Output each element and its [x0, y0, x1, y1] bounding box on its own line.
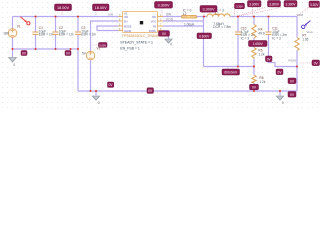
capacitor C2	[53, 32, 59, 34]
designator L1	[215, 12, 219, 16]
bias leader dashed lines	[62, 7, 312, 69]
part value TPS62822DLC_TRANS	[122, 34, 160, 38]
ground 0 center	[92, 96, 100, 105]
wire ground stub left	[12, 49, 14, 57]
label R7 1.65	[302, 34, 308, 42]
pin EN	[119, 20, 128, 23]
net label pgnd	[288, 58, 296, 62]
value 7.68uH DCR	[213, 22, 231, 29]
bias box 0V right edge	[312, 60, 320, 66]
svg-text:18.00V: 18.00V	[95, 6, 108, 10]
svg-text:VOS: VOS	[151, 20, 157, 23]
designator V2	[97, 46, 101, 50]
wire ground drop to bus	[77, 49, 79, 91]
bias box 3.300V sw	[155, 2, 173, 9]
pin VOS	[151, 20, 163, 23]
svg-text:MODE: MODE	[124, 25, 132, 28]
svg-text:0.600V: 0.600V	[199, 34, 210, 38]
wire output cap branch	[269, 17, 298, 67]
label C1 10uF ESR=1m	[39, 26, 54, 37]
svg-text:3.300V: 3.300V	[269, 2, 280, 6]
svg-text:ESR = 1m: ESR = 1m	[59, 33, 74, 37]
bias box 0V g1	[21, 51, 27, 56]
probe text	[306, 30, 312, 34]
bias box 0.600V fb	[197, 33, 212, 39]
svg-text:0: 0	[282, 101, 284, 105]
svg-text:vout: vout	[297, 13, 303, 17]
label C10	[241, 26, 256, 40]
label R6 1.2k	[259, 76, 265, 84]
ground 0 left	[9, 58, 17, 67]
bias box 0V loadgnd	[288, 78, 296, 84]
bias box 18.00V vin pin	[93, 4, 110, 11]
resistor R7 load	[295, 38, 299, 51]
bias box 0V g2	[65, 51, 71, 56]
svg-text:L2: L2	[183, 12, 187, 16]
label C3 10uF ESR=1m	[81, 26, 96, 37]
capacitor C1	[33, 32, 39, 34]
wire VOS pin to FB vertical	[163, 20, 204, 22]
svg-text:L1: L1	[215, 12, 219, 16]
pin numbers left	[119, 14, 121, 31]
value label 18V	[3, 32, 10, 36]
voltage source V1	[8, 29, 17, 38]
pin AGND	[119, 30, 132, 33]
wire VIN top rail	[13, 16, 119, 18]
svg-text:1.65: 1.65	[302, 38, 308, 42]
bias box 3.300V out1	[248, 1, 262, 7]
bias box 0V coutnode2	[276, 69, 283, 75]
designator V1	[17, 24, 21, 28]
value label 5V	[82, 52, 87, 56]
bias box 0V agnd	[159, 31, 170, 36]
svg-text:PGND: PGND	[149, 30, 156, 33]
svg-text:Vout: Vout	[306, 30, 312, 34]
svg-text:1.650V: 1.650V	[253, 42, 264, 46]
designator L2	[183, 12, 187, 16]
net label SW	[166, 13, 172, 17]
svg-text:3.300V: 3.300V	[249, 2, 260, 6]
inductor L2 small	[181, 15, 196, 18]
resistor R4	[252, 25, 256, 39]
svg-text:1.00µH: 1.00µH	[184, 22, 195, 26]
bias box 3.300V sw2	[200, 6, 217, 13]
svg-text:18V: 18V	[3, 32, 10, 36]
wire C3 branch	[77, 17, 79, 50]
resistor R6	[252, 75, 256, 83]
svg-text:STEADY_STATE = 1: STEADY_STATE = 1	[120, 41, 153, 45]
pin SW	[152, 16, 163, 19]
svg-text:VIN: VIN	[124, 16, 128, 19]
svg-text:3.300V: 3.300V	[285, 2, 296, 6]
svg-text:0: 0	[13, 63, 15, 67]
svg-text:5.00V: 5.00V	[99, 43, 106, 47]
svg-text:1.2k: 1.2k	[259, 80, 265, 84]
wire ground stub center	[95, 91, 97, 96]
wire C2 branch	[55, 17, 57, 50]
wire divider column leads	[253, 17, 255, 92]
bias box 3.300V out2	[268, 1, 281, 7]
bias box 0V busend	[288, 92, 296, 98]
wire SW output line	[163, 16, 297, 18]
bias box 1.650V tap	[249, 41, 268, 47]
wire FB pin to FB vertical	[163, 25, 204, 27]
svg-text:VOS: VOS	[166, 17, 174, 21]
wire C10 feedforward branch	[237, 17, 239, 67]
net label VIN	[108, 13, 113, 17]
resistor R5	[252, 48, 256, 60]
net label VOS	[166, 17, 174, 21]
bias box 3.300V out4	[309, 1, 320, 7]
svg-text:3.30V: 3.30V	[236, 5, 243, 9]
capacitor C10 feedforward	[235, 32, 241, 34]
bias box 3.300V out3	[284, 1, 297, 7]
svg-text:SW: SW	[152, 16, 157, 19]
wire AGND pin	[97, 30, 119, 32]
wire input ground rail	[13, 48, 79, 50]
svg-text:VIN: VIN	[108, 13, 113, 17]
wire MODE pin	[97, 26, 119, 31]
wire ground bus bottom	[78, 90, 297, 92]
svg-text:TPS62822DLC_TRANS: TPS62822DLC_TRANS	[122, 34, 160, 38]
voltage source V2	[86, 51, 95, 60]
label C11	[272, 26, 287, 40]
svg-text:1.2k: 1.2k	[258, 53, 264, 57]
voltage probe marker red	[20, 17, 30, 25]
wire EN pin to V2	[91, 21, 119, 51]
svg-text:ESR = 1m: ESR = 1m	[39, 33, 54, 37]
op-amp U1 TPS62822 body	[123, 12, 158, 33]
bias box 18.00V input	[55, 4, 72, 11]
label IC = 3	[215, 8, 224, 12]
svg-text:18.00V: 18.00V	[57, 6, 70, 10]
label C2 10uF ESR=1m	[59, 26, 74, 37]
svg-text:ESR = 1m: ESR = 1m	[81, 33, 96, 37]
wire FB horizontal	[204, 66, 255, 68]
svg-text:FB: FB	[153, 25, 157, 28]
wire V1 top lead	[12, 17, 14, 29]
svg-text:DCR = 7.8m: DCR = 7.8m	[213, 25, 231, 29]
bias box 0V bus2	[147, 88, 154, 94]
svg-text:0: 0	[170, 43, 172, 47]
svg-text:AGND: AGND	[124, 30, 131, 33]
svg-text:600.0mV: 600.0mV	[224, 71, 238, 75]
value 1.00uH	[184, 22, 195, 26]
pin numbers right	[160, 14, 162, 31]
wire V2 bottom to bus	[90, 60, 92, 91]
svg-text:49.9: 49.9	[258, 32, 264, 36]
ground 0 right	[276, 96, 284, 105]
pin FB	[153, 25, 163, 28]
capacitor C3	[75, 32, 81, 34]
label R4 49.9	[258, 28, 264, 36]
svg-text:3.300V: 3.300V	[202, 8, 215, 12]
svg-text:IC = 3: IC = 3	[272, 37, 281, 41]
bias box 0V bus1	[108, 82, 114, 87]
pin VIN	[119, 16, 129, 19]
svg-text:V1: V1	[17, 24, 21, 28]
capacitor C11 output	[266, 32, 272, 34]
param STEADY_STATE	[120, 41, 153, 45]
voltage probe marker vout	[302, 21, 311, 29]
wire FB vertical	[203, 17, 205, 67]
inductor L1	[207, 14, 230, 17]
pin PGND	[149, 30, 163, 33]
ground 0 at IC	[165, 39, 173, 47]
wire V1 bottom lead	[12, 38, 14, 50]
wire PGND pin to ground	[163, 31, 169, 39]
wire ground stub right	[279, 91, 281, 96]
svg-text:3.300V: 3.300V	[157, 4, 170, 8]
svg-text:SW: SW	[166, 13, 172, 17]
svg-text:EN_FSB = 1: EN_FSB = 1	[120, 47, 140, 51]
net label vout	[297, 13, 303, 17]
bias box 3.300V lout	[235, 3, 245, 8]
wire load branch	[296, 17, 298, 92]
svg-text:3.30V: 3.30V	[310, 3, 319, 7]
label R5 1.2k	[258, 49, 264, 57]
bias box 600.0mV fb2	[222, 69, 240, 75]
pin MODE	[119, 25, 132, 28]
bias box 5.000V en	[99, 43, 108, 48]
param EN_FSB	[120, 47, 140, 51]
svg-text:EN: EN	[124, 20, 128, 23]
wire C1 branch	[35, 17, 37, 50]
label IC = 0	[183, 8, 192, 12]
svg-text:PGND: PGND	[288, 58, 296, 62]
svg-text:0: 0	[98, 101, 100, 105]
svg-text:IC = 3: IC = 3	[241, 37, 250, 41]
bias box 0V rbot	[250, 84, 259, 90]
bias box 0V coutnode	[266, 56, 273, 62]
